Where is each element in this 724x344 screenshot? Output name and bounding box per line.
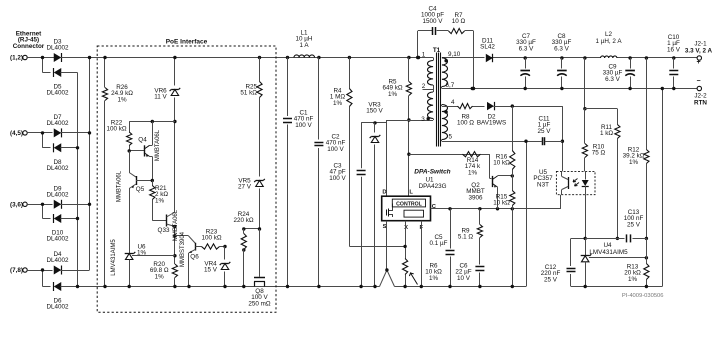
svg-text:1 A: 1 A bbox=[299, 42, 309, 49]
wire RTN junction bbox=[661, 87, 664, 90]
zener VR3 150V bbox=[366, 102, 383, 289]
svg-text:Q6: Q6 bbox=[190, 254, 199, 261]
terminal (4,5) bbox=[10, 130, 27, 137]
wire primary bottom rail bbox=[78, 141, 527, 286]
svg-text:N3T: N3T bbox=[537, 181, 549, 188]
svg-text:DPA423G: DPA423G bbox=[419, 183, 447, 190]
capacitor C8 330uF bbox=[552, 33, 572, 90]
wire input (7,8) bbox=[27, 268, 52, 286]
svg-text:3906: 3906 bbox=[468, 194, 483, 201]
svg-text:100 V: 100 V bbox=[327, 146, 344, 153]
wire secondary common rail bbox=[571, 89, 663, 287]
svg-text:J2-1: J2-1 bbox=[694, 41, 707, 48]
svg-text:100 V: 100 V bbox=[295, 122, 312, 129]
terminal (1,2) bbox=[10, 55, 27, 62]
svg-text:6.3 V: 6.3 V bbox=[605, 76, 621, 83]
diode D7 DL4002 bbox=[46, 114, 89, 137]
terminal (7,8) bbox=[10, 267, 27, 274]
transformer primary winding 1-2 bbox=[417, 52, 433, 86]
capacitor C1 470nF bbox=[283, 56, 313, 288]
label Ethernet connector bbox=[13, 31, 45, 50]
svg-text:X: X bbox=[404, 225, 408, 231]
svg-text:SL42: SL42 bbox=[480, 44, 495, 51]
wire control pin line bbox=[431, 207, 561, 210]
svg-text:1 µH, 2 A: 1 µH, 2 A bbox=[595, 38, 622, 45]
svg-text:100 V: 100 V bbox=[329, 175, 346, 182]
svg-text:1%: 1% bbox=[333, 100, 343, 107]
svg-text:DL4002: DL4002 bbox=[46, 165, 69, 172]
svg-text:150 V: 150 V bbox=[366, 108, 383, 115]
diode D10 DL4002 bbox=[46, 214, 77, 243]
capacitor C5 0.1uF bbox=[430, 209, 455, 288]
svg-text:−: − bbox=[696, 78, 700, 85]
svg-text:MMBST3904: MMBST3904 bbox=[180, 231, 186, 267]
svg-text:Q33: Q33 bbox=[158, 227, 170, 234]
zener VR5 27V bbox=[238, 178, 265, 230]
svg-text:1%: 1% bbox=[137, 250, 147, 257]
wire F pin stub bbox=[420, 221, 423, 288]
capacitor C6 22uF bbox=[455, 263, 484, 289]
resistor R15 10k bbox=[493, 176, 515, 288]
svg-text:DL4002: DL4002 bbox=[46, 45, 69, 52]
wire drain node D bbox=[386, 120, 388, 196]
svg-text:Q5: Q5 bbox=[136, 186, 145, 193]
svg-text:DL4002: DL4002 bbox=[46, 236, 69, 243]
svg-text:L: L bbox=[409, 189, 413, 195]
svg-text:PoE Interface: PoE Interface bbox=[166, 39, 208, 46]
wire clamp node bbox=[361, 121, 386, 124]
svg-text:DL4002: DL4002 bbox=[46, 90, 69, 97]
diode D9 DL4002 bbox=[46, 185, 89, 209]
svg-text:MMBTA06L: MMBTA06L bbox=[173, 209, 179, 241]
resistor R23 100k bbox=[201, 229, 225, 250]
svg-text:3.3 V, 2 A: 3.3 V, 2 A bbox=[685, 48, 713, 55]
wire VR6 column lower bbox=[173, 225, 176, 264]
wire opto LED cathode bbox=[585, 195, 587, 239]
svg-text:1%: 1% bbox=[628, 276, 638, 283]
svg-text:5: 5 bbox=[449, 134, 453, 141]
wire VR5 node bbox=[242, 227, 261, 230]
svg-text:1%: 1% bbox=[429, 275, 439, 282]
resistor R11 1k bbox=[600, 109, 620, 240]
svg-text:10 kΩ: 10 kΩ bbox=[493, 160, 510, 167]
resistor R14 174k bbox=[463, 152, 492, 179]
svg-text:25 V: 25 V bbox=[627, 221, 641, 228]
svg-text:1%: 1% bbox=[468, 169, 478, 176]
resistor R6 10k bbox=[403, 259, 443, 289]
svg-text:PI-4009-030506: PI-4009-030506 bbox=[622, 293, 664, 299]
svg-text:DL4002: DL4002 bbox=[46, 304, 69, 311]
wire opto emitter bbox=[560, 195, 562, 209]
svg-text:15 V: 15 V bbox=[204, 267, 218, 274]
wire input (4,5) bbox=[27, 131, 52, 148]
svg-text:100 kΩ: 100 kΩ bbox=[106, 126, 126, 133]
reference U4 LMV431AIM5 bbox=[581, 238, 648, 288]
svg-text:27 V: 27 V bbox=[238, 184, 252, 191]
svg-text:J2-2: J2-2 bbox=[694, 93, 707, 100]
resistor R13 20k bbox=[624, 238, 649, 288]
svg-text:1: 1 bbox=[422, 52, 426, 59]
svg-text:BAV19WS: BAV19WS bbox=[477, 120, 506, 127]
svg-text:RTN: RTN bbox=[694, 100, 707, 107]
resistor R22 100k bbox=[106, 120, 131, 151]
svg-text:CONTROL: CONTROL bbox=[396, 201, 422, 207]
svg-text:5.1 Ω: 5.1 Ω bbox=[458, 234, 474, 241]
capacitor C10 1uF bbox=[667, 34, 681, 90]
svg-text:1%: 1% bbox=[155, 273, 165, 280]
capacitor C13 100nF bbox=[624, 209, 644, 242]
svg-text:3: 3 bbox=[421, 116, 425, 123]
svg-text:6,7: 6,7 bbox=[446, 82, 455, 89]
wire U4 node line bbox=[571, 237, 646, 240]
diode D2 BAV19WS bbox=[473, 102, 563, 127]
wire Q4 collector node bbox=[129, 120, 175, 123]
svg-text:1500 V: 1500 V bbox=[423, 18, 444, 25]
svg-text:S: S bbox=[383, 224, 387, 230]
wire secondary 3.3V rail bbox=[442, 57, 699, 59]
PoE interface dashed box bbox=[97, 46, 276, 312]
resistor R16 10k bbox=[493, 106, 515, 176]
svg-text:1%: 1% bbox=[388, 91, 398, 98]
zener VR6 11V bbox=[154, 56, 180, 122]
svg-text:DL4002: DL4002 bbox=[46, 257, 69, 264]
transistor Q2 MMBT3906 bbox=[466, 176, 497, 202]
label PI number bbox=[622, 293, 664, 299]
svg-text:2: 2 bbox=[422, 83, 426, 90]
resistor R4 1M bbox=[330, 56, 405, 247]
svg-text:U4: U4 bbox=[603, 242, 612, 249]
wire top input rail bbox=[25, 58, 434, 61]
diode D8 DL4002 bbox=[46, 143, 77, 172]
terminal J2-1 bbox=[685, 41, 713, 67]
svg-text:1%: 1% bbox=[629, 159, 639, 166]
diode D11 SL42 bbox=[480, 38, 495, 63]
resistor R9 5.1 bbox=[458, 209, 483, 265]
svg-text:1%: 1% bbox=[155, 197, 165, 204]
wire R14 feed line bbox=[409, 154, 490, 156]
resistor R5 649k bbox=[382, 56, 411, 120]
resistor R20 69.8 bbox=[150, 261, 178, 288]
wire bridge negative bus bbox=[76, 73, 79, 289]
transformer bias winding 4-5 bbox=[442, 99, 527, 142]
transformer T1 core bbox=[433, 47, 441, 147]
svg-text:25 V: 25 V bbox=[544, 276, 558, 283]
svg-text:DL4002: DL4002 bbox=[46, 120, 69, 127]
transistor Q33 MMBTA06L bbox=[152, 209, 179, 241]
transformer primary winding 2-3 bbox=[387, 92, 434, 123]
reference U6 LMV431AIM5 bbox=[111, 239, 175, 289]
wire L pin line bbox=[407, 118, 410, 196]
inductor L2 1uH bbox=[595, 31, 622, 58]
svg-text:(7,8): (7,8) bbox=[10, 267, 23, 274]
resistor R21 2k bbox=[150, 179, 169, 221]
svg-text:L2: L2 bbox=[605, 31, 613, 38]
capacitor C3 47pF bbox=[329, 123, 365, 288]
zener VR4 15V bbox=[204, 245, 230, 288]
svg-text:1%: 1% bbox=[117, 96, 127, 103]
svg-text:(3,6): (3,6) bbox=[10, 201, 23, 208]
wire bias node column bbox=[561, 106, 564, 171]
resistor R12 39.2k bbox=[623, 56, 649, 240]
transformer secondary winding 9,10-6,7 bbox=[442, 51, 461, 89]
svg-text:DPA-Switch: DPA-Switch bbox=[414, 169, 450, 176]
terminal J2-2 bbox=[694, 78, 707, 107]
capacitor C9 330uF bbox=[603, 56, 635, 90]
wire secondary return rail RTN bbox=[442, 88, 699, 90]
svg-text:T1: T1 bbox=[433, 47, 441, 54]
diode D4 DL4002 bbox=[46, 251, 89, 275]
resistor R8 100 bbox=[457, 87, 474, 127]
transistor Q5 MMBTA06L bbox=[117, 151, 153, 254]
svg-text:D: D bbox=[382, 189, 386, 195]
resistor R7 10 bbox=[437, 12, 474, 34]
svg-text:Q4: Q4 bbox=[138, 137, 147, 144]
capacitor C11 1uF bbox=[524, 116, 562, 146]
svg-text:25 V: 25 V bbox=[538, 128, 552, 135]
resistor R10 75 bbox=[582, 109, 605, 172]
svg-text:(1,2): (1,2) bbox=[10, 55, 23, 62]
terminal (3,6) bbox=[10, 201, 27, 208]
capacitor C2 470nF bbox=[314, 56, 345, 288]
svg-text:10 kΩ: 10 kΩ bbox=[493, 200, 510, 207]
resistor R24 220k bbox=[233, 211, 253, 288]
svg-text:9,10: 9,10 bbox=[448, 51, 461, 58]
svg-text:10 V: 10 V bbox=[457, 275, 471, 282]
wire R22 to Q4 base bbox=[128, 149, 145, 152]
capacitor C7 330uF bbox=[516, 33, 536, 90]
svg-text:100 kΩ: 100 kΩ bbox=[201, 235, 221, 242]
svg-text:Connector: Connector bbox=[13, 43, 45, 50]
diode D3 DL4002 bbox=[46, 39, 89, 63]
svg-text:+: + bbox=[696, 59, 700, 66]
wire Q2 emitter node bbox=[498, 174, 514, 177]
svg-text:DL4002: DL4002 bbox=[46, 192, 69, 199]
resistor R26 24.9k bbox=[102, 56, 133, 288]
diode D6 DL4002 bbox=[46, 282, 77, 311]
wire input (3,6) bbox=[27, 203, 52, 219]
svg-text:1 kΩ: 1 kΩ bbox=[600, 130, 613, 137]
svg-text:250 mΩ: 250 mΩ bbox=[248, 300, 271, 307]
capacitor C4 1000pF bbox=[416, 6, 444, 60]
diode D5 DL4002 bbox=[46, 68, 77, 97]
svg-text:0.1 µF: 0.1 µF bbox=[430, 240, 448, 247]
wire snubber return bbox=[472, 31, 475, 90]
wire bridge positive bus bbox=[88, 56, 91, 270]
inductor L1 10uH bbox=[294, 30, 315, 58]
svg-text:4: 4 bbox=[451, 99, 455, 106]
svg-text:75 Ω: 75 Ω bbox=[592, 150, 606, 157]
svg-text:6.3 V: 6.3 V bbox=[519, 45, 535, 52]
IC U1 DPA-Switch box bbox=[382, 169, 451, 231]
svg-text:220 kΩ: 220 kΩ bbox=[233, 217, 253, 224]
svg-text:11 V: 11 V bbox=[154, 94, 167, 101]
label PoE Interface bbox=[166, 39, 208, 46]
svg-text:LMV431AIM5: LMV431AIM5 bbox=[111, 239, 117, 276]
transistor Q4 MMBTA06L bbox=[138, 122, 161, 181]
capacitor C12 220nF bbox=[541, 238, 576, 286]
wire Q2 collector bbox=[497, 187, 499, 209]
wire feedback feed bbox=[583, 56, 617, 110]
transformer pin 2 stub bbox=[422, 83, 434, 92]
wire input (1,2) bbox=[27, 56, 52, 73]
wire X pin column bbox=[403, 221, 406, 259]
wire source pin hump bbox=[380, 221, 395, 287]
svg-text:100 Ω: 100 Ω bbox=[457, 120, 474, 127]
svg-text:51 kΩ: 51 kΩ bbox=[240, 90, 257, 97]
svg-text:16 V: 16 V bbox=[667, 46, 681, 53]
svg-text:6.3 V: 6.3 V bbox=[554, 45, 570, 52]
svg-text:LMV431AIM5: LMV431AIM5 bbox=[589, 249, 628, 256]
svg-text:MMBTA06L: MMBTA06L bbox=[117, 170, 123, 202]
transistor Q6 MMBT3904 bbox=[175, 231, 202, 288]
wire VR6 column upper bbox=[173, 120, 176, 212]
svg-text:10 Ω: 10 Ω bbox=[452, 18, 466, 25]
transistor Q8 MOSFET bbox=[248, 229, 271, 307]
svg-text:MMBTA06L: MMBTA06L bbox=[155, 129, 161, 161]
resistor R25 51k bbox=[240, 56, 262, 177]
optocoupler U5 PC357N3T bbox=[533, 169, 595, 195]
svg-text:(4,5): (4,5) bbox=[10, 130, 23, 137]
